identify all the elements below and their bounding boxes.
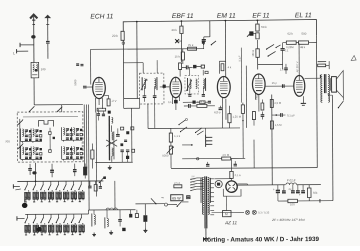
wire bus drop x137 [136,22,138,99]
wire EF1 pins down [221,98,223,128]
svg-text:2,5 M: 2,5 M [274,101,282,105]
capacitor 100p [185,65,187,69]
resistor 25k in AVC line [188,47,197,50]
electrolytic cap pair 2 [282,190,286,192]
antenna coil L1 [31,62,39,78]
tuned circuit cluster 1a [22,129,23,131]
coil L6 below [107,218,108,220]
AZ11 output wire [237,183,247,185]
svg-text:M: M [225,212,228,216]
bank1 column 8 [80,181,82,184]
tuned circuit cluster 1c [22,147,23,149]
stray mark right edge [351,55,356,60]
wire right feed corner [315,35,318,167]
svg-text:EL 11: EL 11 [295,12,312,19]
speaker field coil [329,78,331,90]
resistor 1.5M AF [270,121,273,129]
wire T1 primary up [142,63,144,73]
oscillator coil L3 [112,132,113,134]
wire bus drop to EBF [180,21,182,26]
cap 4u 1 [291,190,295,192]
trimmer diode mark [175,39,179,43]
switch contact x214 [211,41,216,45]
crossing wires osc [106,140,117,147]
wire EBF anode feed [180,33,182,61]
svg-text:700: 700 [5,139,10,143]
capacitor mid x204 [202,39,206,41]
wire bus drop x226 to EM tube [224,21,226,77]
caps under ECH [97,113,100,115]
resistor 100 bottom [288,199,298,202]
tuning cap section 1 [19,119,21,159]
tube EBF11 envelope [170,77,182,97]
bleeder resistor [307,188,311,198]
suppressor cap mains [143,215,147,222]
T2 dashed outline [185,75,199,94]
wire x96 down [95,112,97,180]
mains left branch [135,203,164,205]
svg-text:1,5 M: 1,5 M [275,123,283,127]
tube ECH11 envelope [93,77,106,98]
anode to T1 corner [123,62,143,64]
aerial tap row 2 [17,217,25,219]
tuned circuit cluster 1d [33,147,34,149]
resistor 160 [256,49,259,58]
svg-text:ZF = 468 kHz 147° k/tot: ZF = 468 kHz 147° k/tot [271,218,305,222]
wire T2 top components [189,68,191,75]
mid bus wire y65 [258,63,283,65]
junction blob osc [108,111,111,114]
circle mark on line [196,157,198,159]
switch bank mid y47 [267,44,275,49]
svg-text:-2 V: -2 V [111,99,116,103]
svg-text:EM 11: EM 11 [217,13,236,20]
svg-text:625 p: 625 p [214,110,221,114]
dial lamps wire [212,211,244,213]
wire x283 down [282,64,284,69]
bank1 column 6 [65,181,67,184]
svg-text:4,5 M: 4,5 M [222,153,230,157]
mains switch [167,204,176,206]
tuned circuit cluster 1b [33,129,34,131]
tuned circuit cluster 2d [73,147,74,149]
tone network above OT [318,64,326,67]
test point circle [122,42,125,45]
IF T2 second winding [203,79,204,81]
resistor 2k below [256,33,259,39]
bank2 column 4 [50,214,52,217]
band switch bus row 2 [25,213,88,215]
resistor below box dark [83,167,86,175]
cap feed line x241 [240,48,242,103]
cap 625p [219,107,223,109]
output transformer secondary [328,75,329,77]
transformer primary taps [191,178,197,179]
potentiometer dark wiper [249,31,253,35]
svg-text:500: 500 [301,32,306,36]
svg-text:0,1µF: 0,1µF [238,55,241,62]
tube EF11 second envelope [252,74,265,94]
svg-text:L: L [13,51,15,55]
tuning gang dashed box [17,112,83,162]
wire anode to OT [305,77,321,79]
ground osc caps [109,165,111,167]
capacitor 0.1 below EBF [174,100,178,104]
svg-text:50k: 50k [313,191,318,195]
decoupling caps near EBF [193,65,196,68]
small parts row osc y128 [121,127,124,130]
resistor 20k EBF anode [180,26,183,33]
osc lower switch [99,177,104,183]
svg-text:+: + [273,187,275,191]
heater bus wire [88,209,135,211]
antenna A2 lead wire [47,22,49,41]
chassis bus y168 [171,167,317,170]
fuse 0.1A above rectifier [230,171,233,178]
osc extra marks [120,143,123,146]
svg-text:0,1 µF: 0,1 µF [287,113,295,117]
electrolytic cap pair 1 [276,189,280,191]
wire from banks to heater area [114,181,116,210]
bank2 column 8 [80,214,82,217]
EM feed second wire [218,61,220,73]
svg-text:0,25M: 0,25M [286,45,294,49]
AZ11 filament box [223,189,241,196]
svg-text:160 Ω: 160 Ω [252,50,255,57]
svg-text:240: 240 [41,67,46,71]
resistor 15k below AVC line [181,52,184,60]
dark blob ground row1 [22,203,28,208]
bank1 column 4 [50,181,52,184]
IF transformer T1 dashed box [140,73,164,104]
coupling cap + resistor 0.25M [188,104,190,108]
aerial tap row 1 [13,185,19,187]
line y158 with 4.5M [182,158,221,160]
EL11 cathode ground [302,96,304,103]
cap pair below heater [118,219,122,221]
resistor 500 top right [296,42,298,44]
svg-text:1,25 M: 1,25 M [232,115,241,119]
pilot circle left of AZ11 [215,180,222,187]
antenna A1 lead wire [33,22,35,63]
fuse box 2.5A [174,185,182,188]
wire x272 long down [271,94,274,184]
detector diode arrows [179,120,186,125]
T1 tuning caps [143,95,147,97]
bank2 column 3 [42,214,44,217]
svg-text:0,3 / 0,35: 0,3 / 0,35 [258,210,270,214]
bank1 column 1 [26,181,28,184]
T1 primary coil [144,79,145,81]
resistor 2.5M AF [270,99,273,107]
wire osc vertical pair [83,105,85,169]
junction dot antenna [31,35,35,38]
bank2 column 5 [58,214,60,217]
screen feed x247 down [245,66,247,128]
osc grid wires below ECH [95,98,97,112]
svg-text:15 k: 15 k [175,54,181,58]
screen resistor EF2 [261,103,264,110]
small parts row below EBF y103 [192,101,195,104]
svg-text:1,5: 1,5 [280,67,284,71]
wire EL11 top [298,43,300,75]
svg-text:0,1: 0,1 [168,100,172,104]
wire x258 to mid bus [257,40,259,49]
filter choke [286,183,290,185]
resistor 62k top right [283,42,287,44]
dark comp right of AVC [202,40,205,43]
svg-text:AZ 11: AZ 11 [224,220,237,225]
resistor 250k osc grid [97,108,106,111]
resistor 1.25M AF grid [228,114,231,123]
grid stopper to EL11 [265,85,294,87]
resistor 4k EM [221,64,224,71]
mains terminal [164,203,167,206]
svg-text:Reg: Reg [254,95,258,100]
svg-text:0,25 M: 0,25 M [197,100,206,104]
band link symbol [38,121,53,127]
bank1 column 2 [35,181,37,184]
svg-text:25 k: 25 k [188,43,194,47]
svg-text:AF 297 V: AF 297 V [295,61,299,72]
AVC line y48 [91,48,204,51]
resistor osc feed [91,150,94,159]
wire grid bus y128 [148,127,240,130]
HT supply bus wire [123,20,316,37]
svg-text:20 k: 20 k [171,28,177,32]
rectifier AZ11 envelope [226,181,237,192]
tuned circuit cluster 2b [73,128,74,130]
capacitor osc pad [116,134,120,136]
wire T1 to EBF grid [160,86,169,88]
svg-text:100: 100 [290,202,295,206]
svg-text:Körting - Amatus 40 WK / D - J: Körting - Amatus 40 WK / D - Jahr 1939 [203,236,320,244]
EF2 cathode parts [252,112,255,120]
transformer secondary winding [208,177,209,179]
capacitor below box 2 [50,169,54,171]
IF transformer T2 coils [190,79,191,81]
tube EF11 first envelope [217,76,230,97]
capacitor in antenna 2 lead [46,40,50,42]
B+ rail [237,184,285,186]
tuned circuit cluster 2a [63,128,64,130]
earth terminal stub L [20,44,34,46]
rating box 65W [171,195,183,201]
heater choke coil [106,208,110,210]
cap stack detector [205,135,207,147]
gang drive dashed line [23,116,78,118]
grid cap 5000 left of ECH [83,85,87,87]
end tap mark [319,199,321,203]
ground heater [110,230,112,232]
bank2 column 7 [73,214,75,217]
voltage selector box [187,196,190,199]
bank1 column 3 [42,181,44,184]
svg-text:2,5 A: 2,5 A [174,181,180,185]
tone switch [338,101,343,108]
row1-row2 link verticals [88,181,90,210]
dial lamp 1 [245,210,249,214]
bank2 column 6 [65,214,67,217]
dark blob row2 center [36,227,41,232]
svg-text:0,1 A: 0,1 A [235,173,241,177]
switch above tuner box [29,106,34,111]
electrolytic cap 3 [301,190,305,192]
T2 caps below [188,94,191,96]
junction dots on bus [136,21,138,23]
wire osc frame drop [131,108,133,162]
resistor 500 cathode [107,99,110,106]
svg-text:50 k: 50 k [261,25,267,29]
tube EL11 envelope [294,75,305,96]
capacitor 0.1u x283 [280,48,284,50]
cap 1.5 left of EL [284,67,288,69]
antenna A2 symbol [44,15,51,19]
cap 4u 2 [296,190,300,192]
caps on chassis bus [206,163,209,165]
svg-text:62 k: 62 k [287,32,293,36]
oscillator coil L4 [112,148,113,150]
resistor EBF screen [179,63,182,70]
switch detector 2 [196,128,203,133]
svg-text:~: ~ [161,196,164,202]
resistor 20k anode ECH [121,31,124,40]
svg-text:1,1 k: 1,1 k [174,134,181,138]
junction blob below box [32,171,36,174]
capacitor below box 3 [73,169,77,171]
output transformer primary [321,75,322,77]
tuned circuit cluster 2c [63,147,64,149]
volume pot 5000 [169,146,172,154]
transformer primary winding [202,177,203,179]
svg-text:20 k: 20 k [112,34,118,38]
svg-text:EF 11: EF 11 [252,12,270,19]
coil L5 below [94,214,95,216]
cap dark pair right [129,214,132,218]
wire resistor to ECH plate [122,40,124,98]
svg-text:25 p: 25 p [272,81,278,85]
svg-text:+: + [299,193,301,197]
EF2 pin wires [258,94,260,111]
bank2 column 2 [35,214,37,217]
switch bank mid y54 [268,51,276,56]
bank1 column 5 [57,181,59,184]
field coil box [223,211,232,217]
padder caps row y150 [120,149,123,151]
wire bus drop x258 [256,20,258,23]
T1 secondary coil [155,79,156,81]
resistor 1.1k [169,133,172,142]
resistor 50k AGC [256,24,259,31]
AZ11 anode wires [214,178,231,180]
osc coil core line [108,116,110,160]
wire x254 down [253,140,255,168]
mid box small marks [49,132,52,135]
dial lamp 2 [252,210,256,214]
svg-text:F 01,8: F 01,8 [287,178,296,182]
antenna A1 symbol [30,15,37,19]
wire right column x243 down [242,128,244,158]
power transformer core [204,176,206,228]
wire x34 to tuner box top [34,104,83,106]
capacitor 0.1uF AF [280,113,282,117]
row1 right extras [88,185,91,187]
svg-text:EBF 11: EBF 11 [172,13,194,20]
wire bus drop x210 [209,21,211,37]
transformer secondary taps [210,178,214,180]
frame osc feed [124,98,140,100]
svg-text:ECH 11: ECH 11 [90,13,113,20]
svg-text:5000: 5000 [73,79,77,86]
junction dot det [191,144,193,146]
caps near antenna coil foot [76,63,79,65]
capacitor 5000 below box [28,168,32,170]
svg-text:5000: 5000 [162,154,169,158]
wire antenna coil to tuner [33,78,35,105]
speaker [332,77,337,93]
line y162 osc to bank [95,161,132,163]
resistor 0.5M right column [241,105,244,114]
wire speaker down long [331,95,334,200]
svg-text:48 k: 48 k [300,45,306,49]
wire antenna line down x88 [87,105,89,181]
oscillator coil L2 [112,117,113,119]
bank1 column 7 [73,181,75,184]
EBF pin wires down [171,97,173,104]
svg-text:65 W: 65 W [172,196,181,200]
small res near T2 [205,71,208,73]
transformer ground lead [205,228,207,235]
bank2 column 1 [26,214,28,217]
band switch bus row 1 [17,180,103,182]
